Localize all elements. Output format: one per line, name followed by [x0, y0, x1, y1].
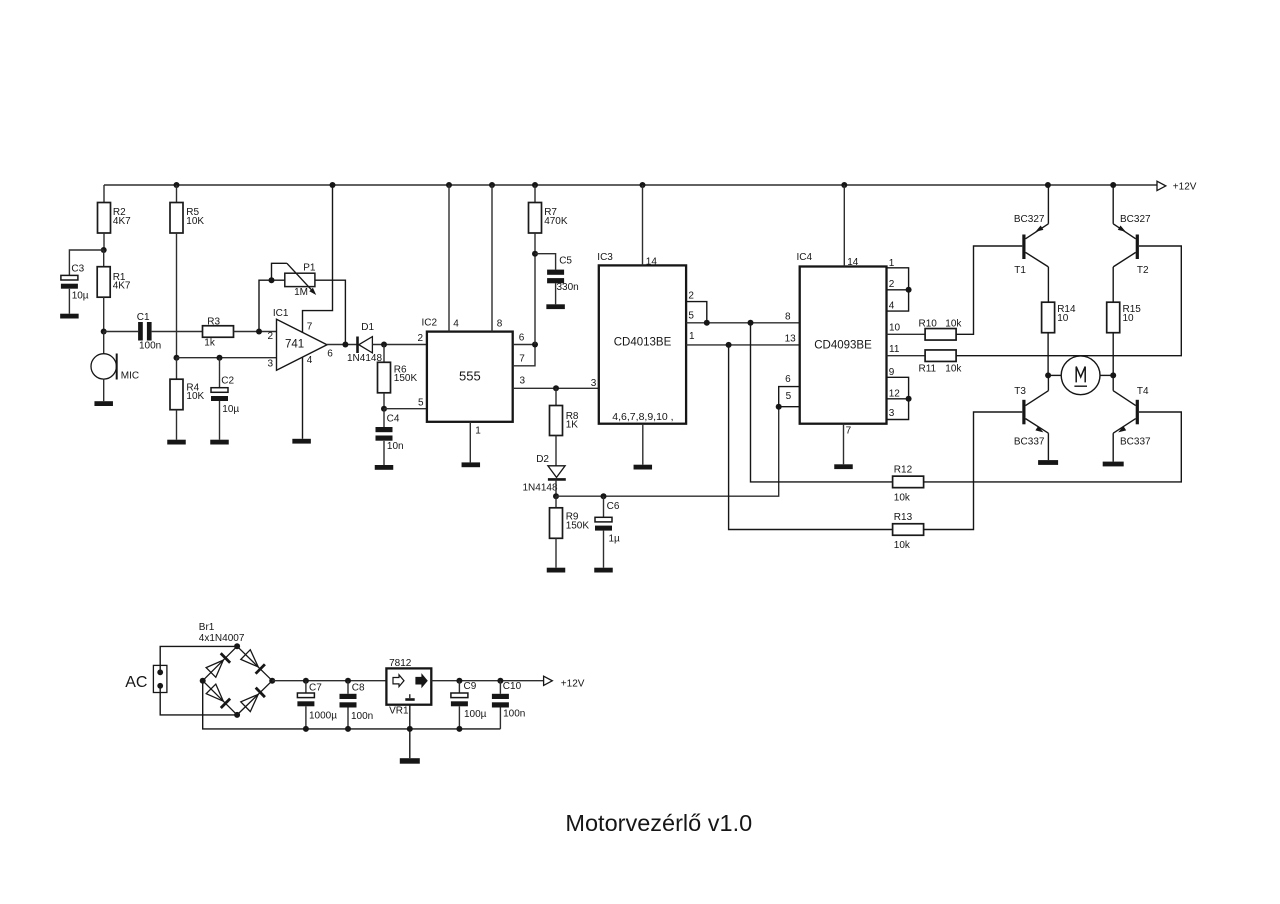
- wire R4 to ground: [176, 410, 178, 440]
- svg-text:P1: P1: [303, 263, 316, 274]
- svg-text:470K: 470K: [544, 216, 568, 227]
- resistor R13: [893, 524, 924, 536]
- svg-text:1K: 1K: [566, 420, 579, 431]
- svg-text:14: 14: [847, 257, 859, 268]
- svg-text:CD4013BE: CD4013BE: [614, 337, 672, 349]
- svg-text:150K: 150K: [566, 521, 590, 532]
- resistor R5: [170, 203, 183, 234]
- transistor T4 BC337 (NPN): [1136, 400, 1139, 425]
- svg-text:AC: AC: [125, 674, 147, 691]
- wire C10 to 0V: [499, 708, 501, 729]
- VR1 input arrow (open): [393, 675, 404, 687]
- resistor R7: [534, 185, 536, 203]
- svg-text:100µ: 100µ: [464, 709, 487, 720]
- ground C6: [594, 568, 613, 573]
- svg-text:10: 10: [1057, 313, 1069, 324]
- power symbol +12V arrow bottom: [544, 676, 553, 685]
- wire R15 to motor right node: [1112, 333, 1114, 376]
- pin 11 wire IC4 to R11: [887, 355, 926, 357]
- node C7 bottom: [303, 726, 309, 732]
- node S (IC4 pins 5-6): [776, 404, 782, 410]
- resistor R1: [103, 250, 105, 267]
- ground R9: [547, 568, 566, 573]
- svg-text:5: 5: [418, 397, 424, 408]
- svg-text:10: 10: [1123, 313, 1135, 324]
- wire rail to R2: [103, 185, 105, 203]
- svg-text:2: 2: [688, 291, 694, 302]
- ground T3: [1038, 460, 1058, 465]
- svg-text:10n: 10n: [387, 441, 404, 452]
- svg-text:10µ: 10µ: [72, 291, 89, 302]
- IC3 CD4013BE box: [599, 265, 686, 423]
- svg-text:C9: C9: [464, 681, 477, 692]
- svg-text:BC327: BC327: [1120, 214, 1151, 225]
- wire node R down to R13: [729, 345, 893, 530]
- wire node I to 555 pin 5: [384, 408, 427, 410]
- wire node L to C5: [535, 254, 556, 270]
- wire node B to C1: [104, 331, 138, 333]
- capacitor C4: [383, 409, 385, 427]
- svg-text:VR1: VR1: [389, 706, 409, 717]
- wire R5 to node C: [176, 233, 178, 358]
- capacitor C2: [219, 358, 221, 388]
- wire AC top to bridge: [160, 646, 237, 672]
- svg-text:10K: 10K: [186, 216, 204, 227]
- wire C6 to ground: [603, 531, 605, 568]
- IC4 CD4093BE box: [800, 267, 887, 424]
- wire node M to IC4 pins 5-6: [556, 407, 779, 497]
- pin 6 wire IC4: [779, 387, 800, 407]
- node E (inverting input / P1): [256, 329, 262, 335]
- VR1 output arrow (solid): [416, 675, 427, 687]
- pin 2 wire IC3: [686, 302, 707, 323]
- node C10 top: [497, 678, 503, 684]
- ground MIC: [94, 401, 113, 406]
- svg-text:2: 2: [268, 331, 274, 342]
- node +12V rail junctions: [174, 182, 180, 188]
- svg-text:C7: C7: [309, 682, 322, 693]
- wire pin3 net: [177, 357, 277, 359]
- svg-text:100n: 100n: [351, 711, 373, 722]
- resistor R14: [1047, 267, 1049, 302]
- svg-text:1: 1: [475, 425, 481, 436]
- pin 3 wire 555: [513, 387, 599, 389]
- resistor R12: [893, 476, 924, 488]
- svg-text:1µ: 1µ: [609, 533, 621, 544]
- svg-text:4K7: 4K7: [113, 281, 131, 292]
- IC3 ground pin wire: [642, 424, 644, 465]
- svg-text:C1: C1: [137, 312, 150, 323]
- svg-text:D1: D1: [361, 322, 374, 333]
- svg-text:741: 741: [285, 339, 304, 351]
- node N (C6 tap): [601, 493, 607, 499]
- wire +12V top rail: [104, 184, 1157, 186]
- wire R8 to D2: [555, 436, 557, 466]
- resistor R15: [1112, 267, 1114, 302]
- node M (D2/R9/C6 timing node): [553, 493, 559, 499]
- svg-text:100n: 100n: [139, 340, 161, 351]
- node G (output/P1/D1): [342, 342, 348, 348]
- ground VR1 (chassis): [400, 758, 420, 764]
- svg-text:4: 4: [307, 355, 313, 366]
- svg-text:4x1N4007: 4x1N4007: [199, 633, 245, 644]
- ground IC3: [634, 465, 653, 470]
- svg-text:6: 6: [327, 349, 333, 360]
- svg-text:10µ: 10µ: [222, 404, 239, 415]
- wire rail to R5: [176, 185, 178, 203]
- wire MIC to ground: [103, 379, 105, 401]
- node K (555.3/R8/IC3.3): [553, 385, 559, 391]
- pins 1-2-4 tie IC4: [887, 268, 909, 311]
- resistor R3: [203, 326, 234, 338]
- svg-text:7812: 7812: [389, 658, 412, 669]
- bridge diode D3 (left-top): [206, 660, 223, 677]
- svg-text:3: 3: [889, 408, 895, 419]
- svg-text:T2: T2: [1137, 265, 1149, 276]
- wire C2 to ground: [219, 401, 221, 440]
- ground C2: [210, 440, 229, 445]
- ground 555 pin 1: [462, 462, 481, 467]
- transistor T1 BC327 (PNP): [1022, 235, 1025, 260]
- ground C4: [375, 465, 394, 470]
- capacitor C3: [61, 275, 78, 280]
- svg-text:1N4148: 1N4148: [523, 483, 558, 494]
- IC2 555 timer box: [427, 332, 513, 422]
- node B (R1/C1/MIC): [101, 329, 107, 335]
- capacitor C8: [347, 681, 349, 694]
- svg-text:5: 5: [688, 311, 694, 322]
- svg-text:2: 2: [889, 279, 895, 290]
- svg-text:5: 5: [786, 391, 792, 402]
- capacitor C1: [138, 322, 143, 341]
- svg-text:1: 1: [889, 258, 895, 269]
- potentiometer P1: [285, 273, 315, 286]
- wire R3 to op-amp pin 2: [234, 331, 277, 333]
- svg-text:10k: 10k: [894, 492, 911, 503]
- wire R2 to node A: [103, 233, 105, 250]
- node J (R7/C5/555.6-7): [532, 342, 538, 348]
- svg-text:150K: 150K: [394, 373, 418, 384]
- wire bridge left to 0V rail: [203, 681, 501, 729]
- voltage regulator VR1 7812: [386, 668, 431, 704]
- bridge diode D4 (top-right): [241, 650, 258, 667]
- resistor R4: [176, 358, 178, 380]
- node bridge left: [200, 678, 206, 684]
- node A (R2/R1/C3): [101, 247, 107, 253]
- pin 7 wire IC4 to ground: [843, 424, 845, 465]
- node C8 top: [345, 678, 351, 684]
- svg-text:330n: 330n: [557, 282, 579, 293]
- node bridge top: [234, 643, 240, 649]
- capacitor C6: [603, 496, 605, 517]
- node bridge right: [269, 678, 275, 684]
- capacitor C10: [499, 681, 501, 694]
- svg-text:+12V: +12V: [561, 679, 585, 690]
- node R (to R13): [726, 342, 732, 348]
- power symbol +12V arrow top right: [1157, 181, 1166, 190]
- svg-text:555: 555: [459, 369, 481, 384]
- svg-text:D2: D2: [536, 454, 549, 465]
- pin 1 wire 555 to ground: [469, 422, 471, 463]
- svg-text:R10: R10: [919, 319, 938, 330]
- ground T4: [1103, 462, 1124, 467]
- node F (P1 wiper tie): [269, 277, 275, 283]
- node bridge bottom: [234, 712, 240, 718]
- svg-text:10k: 10k: [945, 363, 962, 374]
- svg-text:C6: C6: [607, 501, 620, 512]
- node C7 top: [303, 678, 309, 684]
- ground C5: [546, 304, 565, 309]
- svg-text:4,6,7,8,9,10 ,: 4,6,7,8,9,10 ,: [612, 411, 673, 423]
- wire C8 to 0V: [347, 708, 349, 729]
- svg-text:4K7: 4K7: [113, 216, 131, 227]
- pin 8 wire to rail: [491, 185, 493, 332]
- capacitor C7: [305, 681, 307, 693]
- wire D1 to 555 pin 2: [372, 344, 427, 346]
- node VR1 ground on 0V rail: [407, 726, 413, 732]
- svg-text:7: 7: [846, 426, 852, 437]
- svg-text:1000µ: 1000µ: [309, 711, 337, 722]
- svg-text:IC2: IC2: [422, 317, 438, 328]
- svg-text:IC1: IC1: [273, 308, 289, 319]
- node D (C2 tap): [217, 355, 223, 361]
- pin 6 wire 555: [513, 344, 535, 346]
- svg-text:+12V: +12V: [1173, 182, 1197, 193]
- node I (R6/C4/555.5): [381, 406, 387, 412]
- wire C9 to 0V: [458, 706, 460, 729]
- capacitor C5: [547, 270, 564, 275]
- svg-text:1: 1: [689, 331, 695, 342]
- svg-text:10K: 10K: [186, 391, 204, 402]
- pin 14 wire IC3: [642, 185, 644, 265]
- ground R4: [167, 440, 186, 445]
- svg-text:3: 3: [591, 378, 597, 389]
- svg-text:BC337: BC337: [1120, 437, 1151, 448]
- node C (R5/R4/pin3 net): [174, 355, 180, 361]
- svg-text:11: 11: [889, 344, 900, 355]
- node P (pin5/pin2 tie): [704, 320, 710, 326]
- resistor R8: [555, 388, 557, 405]
- node C8 bottom: [345, 726, 351, 732]
- pin 5 wire IC3 to IC4 pin 8: [686, 322, 800, 324]
- svg-text:C4: C4: [387, 414, 400, 425]
- svg-text:MIC: MIC: [121, 371, 139, 382]
- motor M: [1061, 356, 1100, 395]
- svg-text:10k: 10k: [945, 319, 962, 330]
- node H (D1/R6/555.2): [381, 342, 387, 348]
- wire R11 to T2 base: [956, 246, 1181, 356]
- wire VR1 output to +12V arrow: [431, 680, 543, 682]
- svg-text:C10: C10: [503, 681, 522, 692]
- bridge diode D5 (left-bottom): [206, 684, 223, 701]
- wire C4 to ground: [383, 441, 385, 465]
- pin 1 wire IC3 to IC4 pin 13: [686, 344, 800, 346]
- wire P1 wiper: [272, 263, 287, 280]
- svg-text:6: 6: [519, 332, 525, 343]
- svg-text:C8: C8: [352, 682, 365, 693]
- pin 10 wire IC4 to R10: [887, 333, 926, 335]
- wire node Q down to R12: [751, 323, 893, 482]
- resistor R6: [383, 345, 385, 363]
- svg-text:10: 10: [889, 323, 901, 334]
- wire node A to C3: [69, 250, 103, 275]
- VR1 internal ground mark: [409, 694, 411, 698]
- wire node E to P1 left: [259, 280, 285, 331]
- svg-text:2: 2: [417, 333, 423, 344]
- svg-text:3: 3: [520, 376, 526, 387]
- svg-text:6: 6: [785, 374, 791, 385]
- transistor T2 BC327 (PNP): [1136, 235, 1139, 260]
- node T (motor left): [1045, 372, 1051, 378]
- svg-text:BC337: BC337: [1014, 437, 1045, 448]
- svg-text:R11: R11: [919, 363, 937, 374]
- svg-text:1M: 1M: [294, 287, 308, 298]
- resistor R10: [925, 329, 956, 341]
- transistor T3 BC337 (NPN): [1022, 400, 1025, 425]
- svg-text:C2: C2: [221, 376, 234, 387]
- svg-text:T4: T4: [1137, 386, 1149, 397]
- svg-text:3: 3: [268, 359, 274, 370]
- svg-text:IC4: IC4: [797, 252, 813, 263]
- node Q (to R12): [748, 320, 754, 326]
- wire bridge right to VR1 input: [272, 680, 386, 682]
- diode D1 1N4148: [356, 337, 359, 354]
- ground op-amp pin 4: [292, 439, 311, 444]
- svg-text:7: 7: [307, 321, 313, 332]
- pin 7 wire 555: [513, 345, 535, 366]
- wire op-amp pin 4 to ground: [302, 357, 304, 439]
- wire C5 to ground: [555, 283, 557, 304]
- svg-text:8: 8: [497, 319, 503, 330]
- svg-text:R3: R3: [207, 317, 220, 328]
- node L (R7/C5): [532, 251, 538, 257]
- pin 5 wire IC4: [779, 406, 800, 408]
- wire R9 to ground: [555, 538, 557, 567]
- node C9 top: [456, 678, 462, 684]
- pin 4 wire to rail: [448, 185, 450, 332]
- svg-text:Motorvezérlő v1.0: Motorvezérlő v1.0: [565, 810, 752, 836]
- svg-text:R12: R12: [894, 464, 913, 475]
- svg-text:10k: 10k: [894, 540, 911, 551]
- wire R12 to T4 base: [924, 412, 1182, 482]
- wire op-amp pin 7 to rail: [303, 185, 333, 333]
- wire P1 right to output node: [315, 280, 346, 344]
- svg-text:T3: T3: [1014, 386, 1026, 397]
- pin 14 wire IC4: [843, 185, 845, 267]
- wire R10 to T1 base: [956, 246, 1022, 334]
- wire C1 to R3: [152, 331, 203, 333]
- svg-text:IC3: IC3: [597, 252, 613, 263]
- svg-text:8: 8: [785, 312, 791, 323]
- svg-text:7: 7: [519, 354, 525, 365]
- svg-text:BC327: BC327: [1014, 214, 1045, 225]
- wire R6 to node I: [383, 393, 385, 409]
- wire R7 to node J: [534, 233, 536, 345]
- capacitor C9: [458, 681, 460, 693]
- svg-text:13: 13: [785, 333, 797, 344]
- node C9 bottom: [456, 726, 462, 732]
- wire R13 to T3 base: [924, 412, 1023, 530]
- resistor R9: [555, 496, 557, 508]
- svg-text:4: 4: [453, 319, 459, 330]
- svg-text:12: 12: [889, 388, 901, 399]
- svg-text:14: 14: [646, 256, 658, 267]
- wire AC bottom to bridge: [160, 686, 237, 715]
- node U (motor right): [1110, 372, 1116, 378]
- ground C3: [60, 314, 79, 319]
- svg-text:CD4093BE: CD4093BE: [814, 340, 872, 352]
- ground IC4: [834, 464, 853, 469]
- bridge diode D6 (bottom-right): [241, 694, 258, 711]
- diode D2 1N4148: [548, 466, 565, 478]
- svg-text:R13: R13: [894, 512, 913, 523]
- microphone MIC: [103, 332, 105, 354]
- resistor R11: [925, 350, 956, 362]
- svg-text:C5: C5: [559, 255, 572, 266]
- wire C7 to 0V: [305, 706, 307, 729]
- svg-text:C3: C3: [71, 264, 84, 275]
- wire motor leads: [1048, 374, 1061, 376]
- resistor R2: [98, 203, 111, 234]
- connector AC input: [153, 665, 167, 692]
- svg-text:9: 9: [889, 367, 895, 378]
- wire op-amp output: [327, 344, 357, 346]
- wire R14 to motor left node: [1047, 333, 1049, 376]
- svg-text:4: 4: [889, 301, 895, 312]
- wire R1 to node B: [103, 297, 105, 331]
- op-amp U1 741 IC1: [277, 319, 328, 370]
- svg-text:T1: T1: [1014, 265, 1026, 276]
- wire C3 to ground: [68, 289, 70, 314]
- svg-text:100n: 100n: [503, 709, 525, 720]
- wire VR1 ground pin: [409, 705, 411, 759]
- wire D2 to node M: [555, 479, 557, 496]
- svg-text:1k: 1k: [204, 337, 216, 348]
- svg-text:Br1: Br1: [199, 622, 215, 633]
- pins 9-12-3 tie IC4: [887, 377, 909, 419]
